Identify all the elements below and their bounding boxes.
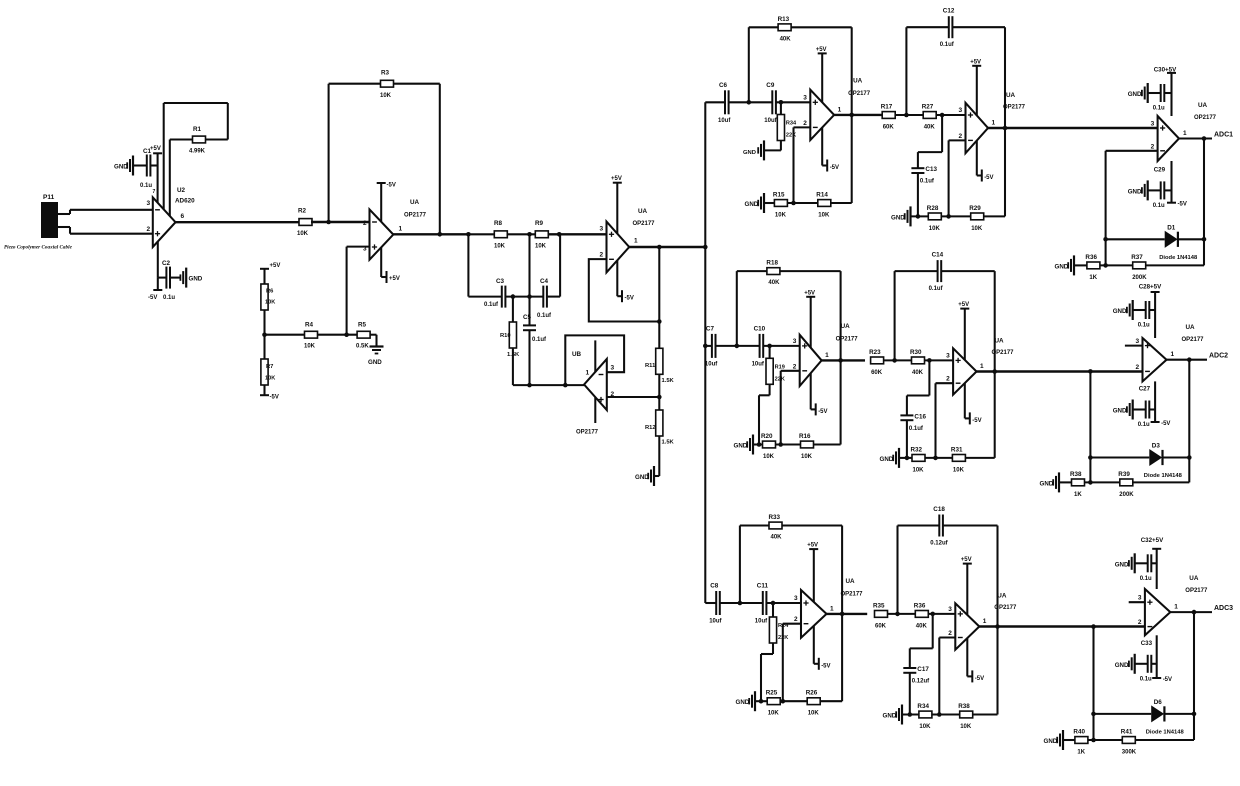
node: [738, 601, 743, 606]
diode D1 1N4148: [1159, 224, 1198, 260]
svg-text:-5V: -5V: [972, 418, 981, 424]
svg-text:60K: 60K: [875, 623, 887, 629]
wire (bus): [704, 102, 706, 603]
svg-text:7: 7: [153, 189, 156, 195]
wire: [1074, 264, 1087, 266]
wire: [1135, 663, 1148, 665]
wire: [1167, 359, 1208, 361]
svg-text:10K: 10K: [494, 244, 506, 250]
wire: [906, 27, 948, 115]
ground GND (C27): [1113, 400, 1133, 420]
wire: [1146, 264, 1204, 266]
svg-text:10K: 10K: [297, 231, 309, 237]
node: [527, 294, 532, 299]
resistor R25: [766, 690, 781, 717]
svg-text:-5V: -5V: [821, 663, 830, 669]
svg-text:0.5K: 0.5K: [356, 344, 369, 350]
wire (feedback): [589, 259, 660, 321]
wire: [547, 234, 560, 296]
svg-text:10K: 10K: [953, 467, 965, 473]
op-amp U11A OP2177: [1151, 102, 1217, 161]
wire: [1188, 360, 1190, 483]
node: [927, 358, 932, 363]
wire: [902, 713, 919, 715]
power +5V (U8A): [970, 59, 981, 115]
wire: [1059, 481, 1071, 483]
node: [657, 319, 662, 324]
svg-text:UA: UA: [1006, 92, 1016, 99]
ground GND (C30): [1128, 83, 1148, 103]
node: [849, 113, 854, 118]
capacitor C33: [1140, 640, 1153, 683]
capacitor C8: [709, 583, 722, 625]
svg-text:C32+5V: C32+5V: [1141, 537, 1164, 544]
svg-text:Diode 1N4148: Diode 1N4148: [1146, 729, 1185, 735]
svg-text:OP2177: OP2177: [1194, 115, 1217, 121]
node: [838, 358, 843, 363]
node: [1088, 480, 1093, 485]
node: [1192, 712, 1197, 717]
svg-text:10K: 10K: [265, 376, 275, 382]
wire (pin3 stub): [1125, 345, 1143, 347]
wire: [176, 221, 301, 223]
power -5V (U5A): [822, 128, 839, 172]
node: [1202, 136, 1207, 141]
svg-text:3: 3: [600, 226, 604, 233]
svg-text:3: 3: [147, 200, 151, 207]
wire: [988, 127, 1158, 129]
svg-text:1: 1: [992, 120, 996, 127]
node: [905, 456, 910, 461]
svg-text:10K: 10K: [818, 213, 830, 219]
svg-text:0.1uf: 0.1uf: [929, 286, 944, 292]
svg-text:R6: R6: [266, 289, 274, 295]
svg-text:0.1uf: 0.1uf: [909, 426, 924, 432]
svg-text:R12: R12: [645, 425, 656, 431]
wire: [393, 233, 468, 235]
wire: [966, 457, 995, 459]
wire: [1164, 92, 1171, 94]
svg-text:0.1u: 0.1u: [140, 183, 152, 189]
svg-text:UA: UA: [1186, 324, 1196, 331]
svg-text:2: 2: [1151, 143, 1155, 150]
svg-text:GND: GND: [635, 474, 649, 481]
svg-text:GND: GND: [736, 699, 750, 706]
svg-text:GND: GND: [880, 456, 894, 463]
node: [992, 369, 997, 374]
wire: [936, 114, 965, 116]
wire: [776, 101, 810, 103]
svg-text:1: 1: [586, 370, 590, 377]
wire: [1170, 611, 1212, 613]
svg-text:R41: R41: [1121, 729, 1133, 736]
capacitor C30: [1153, 67, 1177, 112]
wire: [791, 27, 852, 203]
wire: [58, 227, 153, 234]
resistor R15: [773, 192, 788, 219]
svg-text:10K: 10K: [535, 244, 547, 250]
power +5V (divider): [260, 263, 280, 269]
svg-text:1: 1: [838, 106, 842, 113]
svg-text:GND: GND: [1113, 308, 1127, 315]
svg-text:0.1uf: 0.1uf: [940, 42, 955, 48]
svg-text:-5V: -5V: [975, 676, 984, 682]
svg-text:R23: R23: [869, 349, 881, 356]
resistor R29: [969, 205, 984, 232]
wire: [705, 101, 725, 103]
port ADC2: [1209, 353, 1228, 360]
node: [657, 245, 662, 250]
svg-text:2: 2: [600, 252, 604, 259]
svg-text:Diode 1N4148: Diode 1N4148: [1159, 255, 1198, 261]
node: [1187, 455, 1192, 460]
svg-text:+5V: +5V: [970, 59, 981, 65]
resistor R8: [494, 220, 507, 250]
svg-text:10uf: 10uf: [764, 118, 777, 124]
node: [946, 214, 951, 219]
ground GND (R12): [635, 466, 654, 486]
wire: [949, 140, 966, 216]
wire: [1193, 612, 1195, 740]
ground GND (R38): [1040, 472, 1060, 492]
svg-text:10K: 10K: [913, 467, 925, 473]
wire: [936, 383, 954, 458]
wire: [888, 613, 916, 615]
svg-text:R39: R39: [1118, 471, 1130, 478]
wire: [764, 202, 774, 204]
node: [767, 344, 772, 349]
node: [937, 712, 942, 717]
resistor R7: [261, 359, 275, 385]
wire: [911, 215, 929, 217]
wire: [755, 700, 767, 702]
svg-text:1K: 1K: [1077, 750, 1085, 756]
wire: [740, 526, 769, 604]
wire: [827, 613, 868, 615]
svg-text:40K: 40K: [916, 623, 928, 629]
op-amp U3A OP2177: [363, 199, 427, 260]
svg-text:10uf: 10uf: [705, 361, 718, 367]
svg-text:C17: C17: [917, 666, 929, 673]
capacitor C5: [523, 314, 547, 343]
resistor R24: [769, 617, 789, 643]
resistor R20: [761, 433, 776, 460]
ground GND (R5): [368, 347, 384, 367]
svg-text:-5V: -5V: [984, 175, 993, 181]
wire: [928, 613, 955, 615]
svg-text:-5V: -5V: [148, 295, 157, 301]
svg-text:R38: R38: [1070, 471, 1082, 478]
svg-text:200K: 200K: [1119, 492, 1134, 498]
svg-text:R27: R27: [922, 104, 934, 111]
wire: [788, 202, 818, 204]
ground GND (R34): [883, 705, 903, 725]
svg-text:C3: C3: [496, 278, 505, 285]
svg-text:Piezo Copolymer Coaxial Cable: Piezo Copolymer Coaxial Cable: [4, 245, 73, 251]
node: [511, 294, 516, 299]
svg-text:2: 2: [948, 630, 952, 637]
wire: [1133, 481, 1189, 483]
svg-text:GND: GND: [368, 359, 382, 366]
capacitor C13: [911, 166, 937, 185]
svg-text:OP2177: OP2177: [576, 430, 599, 436]
svg-text:2: 2: [793, 363, 797, 370]
svg-text:D6: D6: [1154, 699, 1163, 706]
node: [344, 332, 349, 337]
svg-text:R11: R11: [645, 363, 656, 369]
node: [930, 612, 935, 617]
wire: [814, 443, 841, 445]
node: [735, 344, 740, 349]
svg-text:C16: C16: [914, 413, 926, 420]
wire: [1094, 713, 1195, 715]
resistor R40: [1073, 729, 1088, 756]
svg-text:C14: C14: [932, 252, 944, 259]
power +5V (U10A): [961, 557, 972, 615]
wire: [1148, 92, 1161, 94]
ground GND (R34): [743, 140, 764, 160]
ground GND (R40): [1044, 730, 1064, 750]
svg-text:+5V: +5V: [270, 263, 281, 269]
wire: [831, 202, 852, 204]
svg-text:C27: C27: [1139, 386, 1151, 393]
resistor R9: [535, 220, 548, 250]
wire: [884, 359, 912, 361]
svg-text:GND: GND: [1128, 188, 1142, 195]
node: [438, 232, 443, 237]
node: [940, 113, 945, 118]
wire: [895, 114, 923, 116]
svg-text:R36: R36: [1085, 254, 1097, 261]
svg-text:UA: UA: [997, 592, 1007, 599]
port ADC3: [1214, 605, 1233, 612]
svg-text:4.99K: 4.99K: [189, 149, 206, 155]
svg-text:1K: 1K: [1074, 492, 1082, 498]
power -5V (U9A): [965, 383, 982, 424]
wire: [607, 396, 660, 398]
svg-text:10uf: 10uf: [709, 619, 722, 625]
resistor R16: [799, 433, 814, 460]
svg-text:UA: UA: [995, 337, 1005, 344]
label piezo cable: [4, 245, 73, 251]
svg-text:2: 2: [147, 226, 151, 233]
power +5V (U9A): [958, 302, 969, 360]
wire: [1151, 663, 1156, 665]
svg-text:R20: R20: [761, 433, 773, 440]
wire: [794, 127, 811, 203]
diode D3 1N4148: [1144, 443, 1183, 480]
svg-text:UA: UA: [410, 199, 420, 206]
op-amp U13A OP2177: [1138, 575, 1208, 635]
svg-text:UA: UA: [846, 578, 856, 585]
svg-text:1.5K: 1.5K: [662, 378, 675, 384]
svg-text:Diode 1N4148: Diode 1N4148: [1144, 473, 1183, 479]
svg-text:C33: C33: [1141, 640, 1153, 647]
ground GND (C32): [1115, 553, 1135, 573]
wire: [834, 114, 882, 116]
wire: [906, 420, 908, 458]
svg-text:UA: UA: [1189, 575, 1199, 582]
svg-text:0.12uf: 0.12uf: [930, 541, 948, 547]
node: [326, 220, 331, 225]
power -5V (C29): [1167, 161, 1187, 208]
capacitor C4: [537, 278, 552, 319]
svg-text:C13: C13: [925, 166, 937, 173]
svg-text:GND: GND: [743, 150, 756, 156]
svg-text:0.12uf: 0.12uf: [912, 679, 930, 685]
svg-text:R36: R36: [914, 602, 926, 609]
svg-text:0.1u: 0.1u: [1138, 323, 1150, 329]
svg-text:GND: GND: [1044, 738, 1058, 745]
svg-text:22K: 22K: [786, 133, 796, 139]
wire: [1133, 309, 1146, 311]
resistor R10: [500, 322, 520, 358]
wire: [393, 84, 440, 235]
wire: [918, 115, 942, 168]
capacitor C9: [764, 82, 777, 124]
wire: [512, 297, 514, 322]
wire: [780, 102, 782, 114]
op-amp U5A OP2177: [803, 78, 870, 140]
svg-text:GND: GND: [114, 164, 128, 171]
wire: [973, 713, 998, 715]
svg-text:3: 3: [1136, 338, 1140, 345]
resistor R32: [911, 446, 926, 473]
svg-text:2: 2: [1138, 619, 1142, 626]
svg-text:10uf: 10uf: [755, 619, 768, 625]
resistor R36: [1085, 254, 1100, 281]
svg-text:R34: R34: [786, 121, 797, 127]
ground GND (R20): [734, 435, 754, 455]
node: [1192, 610, 1197, 615]
node: [527, 383, 532, 388]
node: [1003, 126, 1008, 131]
svg-text:R2: R2: [298, 208, 307, 215]
svg-text:+5V: +5V: [958, 302, 969, 308]
capacitor C16: [900, 413, 926, 432]
svg-text:0.1uf: 0.1uf: [537, 313, 552, 319]
op-amp UB OP2177: [572, 351, 615, 436]
wire: [658, 247, 660, 348]
svg-text:+5V: +5V: [389, 276, 400, 282]
wire: [917, 173, 919, 216]
wire (feedback): [565, 335, 624, 385]
svg-text:GND: GND: [1040, 480, 1054, 487]
svg-text:1: 1: [830, 605, 834, 612]
svg-text:1: 1: [980, 363, 984, 370]
svg-text:OP2177: OP2177: [1182, 337, 1205, 343]
svg-text:1: 1: [1171, 351, 1175, 358]
node: [1088, 369, 1093, 374]
wire: [158, 277, 181, 279]
svg-text:D1: D1: [1167, 224, 1176, 231]
capacitor C11: [755, 583, 769, 625]
power +5V (U7A): [807, 543, 818, 602]
wire: [898, 526, 940, 614]
wire: [548, 233, 606, 235]
resistor R17: [881, 104, 896, 131]
wire: [907, 360, 930, 415]
ground GND (R36): [1055, 255, 1075, 275]
svg-text:40K: 40K: [768, 280, 780, 286]
wire: [705, 345, 711, 347]
svg-text:R26: R26: [806, 690, 818, 697]
svg-text:ADC2: ADC2: [1209, 353, 1228, 360]
svg-text:R9: R9: [535, 220, 544, 227]
capacitor C17: [903, 666, 930, 685]
capacitor C1: [140, 148, 152, 189]
svg-text:-5V: -5V: [1178, 202, 1187, 208]
resistor R33: [769, 514, 783, 541]
node: [904, 113, 909, 118]
svg-text:GND: GND: [734, 443, 748, 450]
svg-text:2: 2: [959, 133, 963, 140]
node: [771, 601, 776, 606]
node: [563, 383, 568, 388]
power +5V (C32): [1152, 549, 1161, 589]
ground GND (R32): [880, 448, 900, 468]
node: [995, 624, 1000, 629]
capacitor C7: [705, 325, 718, 367]
svg-text:0.1u: 0.1u: [1140, 676, 1152, 682]
svg-text:1: 1: [634, 238, 638, 245]
wire: [1148, 189, 1161, 191]
svg-text:GND: GND: [1115, 561, 1129, 568]
node: [262, 332, 267, 337]
svg-text:R31: R31: [951, 446, 963, 453]
svg-text:40K: 40K: [780, 36, 792, 42]
svg-text:R17: R17: [881, 104, 893, 111]
wire: [952, 27, 1005, 216]
power +5V (C28): [1151, 292, 1160, 338]
wire: [311, 221, 370, 223]
node: [933, 456, 938, 461]
svg-text:AD620: AD620: [175, 198, 195, 205]
svg-text:P11: P11: [43, 194, 55, 201]
resistor R6: [261, 284, 275, 310]
svg-text:R1: R1: [193, 126, 202, 133]
connector P11: [41, 194, 58, 238]
wire: [164, 103, 228, 210]
svg-text:GND: GND: [189, 276, 203, 283]
node: [908, 712, 913, 717]
in-amp U2 AD620: [147, 187, 196, 247]
svg-text:10K: 10K: [304, 344, 316, 350]
node: [781, 699, 786, 704]
wire: [329, 84, 381, 222]
svg-text:OP2177: OP2177: [1003, 104, 1026, 110]
svg-text:C12: C12: [943, 8, 955, 15]
wire: [468, 234, 501, 296]
resistor R37: [1131, 254, 1147, 281]
svg-text:OP2177: OP2177: [992, 350, 1015, 356]
svg-text:UA: UA: [1198, 102, 1208, 109]
svg-text:10K: 10K: [808, 711, 820, 717]
power -5V (U3A): [377, 183, 396, 222]
wire: [263, 385, 265, 395]
ground GND (C2): [180, 268, 202, 288]
svg-text:C28+5V: C28+5V: [1139, 284, 1162, 291]
svg-text:2: 2: [1136, 364, 1140, 371]
power +5V (U5A): [816, 47, 827, 102]
wire: [925, 359, 954, 361]
node: [466, 232, 471, 237]
svg-text:-5V: -5V: [387, 183, 396, 189]
svg-text:10K: 10K: [801, 454, 813, 460]
svg-text:R10: R10: [500, 333, 511, 339]
wire: [1149, 408, 1155, 410]
svg-text:2: 2: [803, 120, 807, 127]
